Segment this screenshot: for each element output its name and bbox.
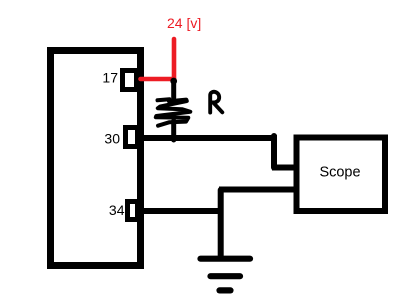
- wire: pin 34 to junction: [140, 208, 223, 214]
- pin 34 terminal box: [128, 202, 138, 220]
- red supply wire from pin 17: [141, 39, 175, 79]
- svg-text:17: 17: [102, 70, 118, 86]
- resistor R bottom lead wire: [171, 121, 176, 140]
- junction node: red wire to resistor: [170, 78, 177, 85]
- svg-text:34: 34: [109, 202, 125, 218]
- chip body U1: [51, 51, 141, 266]
- resistor R top lead wire: [171, 81, 176, 98]
- svg-text:24 [v]: 24 [v]: [167, 15, 201, 31]
- wire: pin 30 to scope upper branch: [140, 135, 277, 141]
- scope box: [297, 138, 386, 212]
- wire: junction up from pin-34 net: [218, 190, 224, 258]
- pin 30 terminal box: [126, 128, 138, 147]
- svg-text:Scope: Scope: [319, 164, 360, 180]
- resistor R body (hand-drawn zigzag): [156, 99, 191, 125]
- svg-text:30: 30: [104, 131, 120, 147]
- wire: into scope upper terminal: [272, 165, 297, 171]
- pin 17 terminal box: [123, 71, 137, 90]
- ground symbol: [201, 259, 251, 291]
- wire: into scope lower terminal: [219, 187, 297, 193]
- resistor label R (hand-drawn): [210, 92, 222, 113]
- wire: corner down from pin-30 net: [271, 136, 277, 168]
